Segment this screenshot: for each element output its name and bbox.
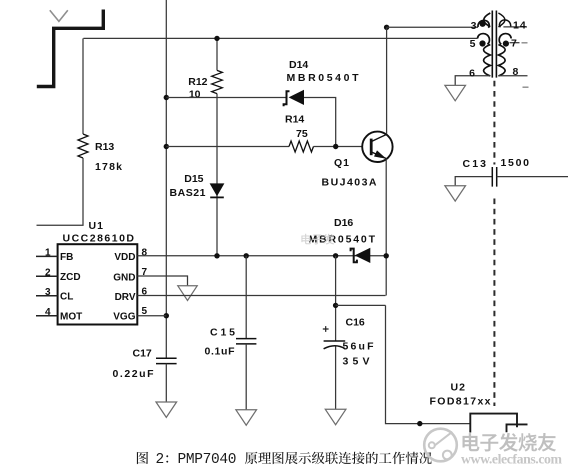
ground transformer pin 6 <box>445 85 466 100</box>
svg-text:14: 14 <box>513 20 527 32</box>
svg-text:GND: GND <box>113 273 135 284</box>
isolation boundary dashed line <box>493 81 495 406</box>
wire Q1 collector up <box>386 27 388 134</box>
node R14 line left junction <box>164 144 169 149</box>
diode D14 MBR0540T (schottky) <box>284 90 304 106</box>
wire R13 bottom lead <box>37 158 84 225</box>
capacitor C16 56uF (polarized) <box>323 326 345 349</box>
svg-text:3: 3 <box>471 20 477 32</box>
transformer right winding lower (pins 7-8) <box>498 34 511 76</box>
wire C16 link to emitter line <box>336 304 386 306</box>
svg-text:PMP7040: PMP7040 <box>178 452 237 468</box>
wire VGG pin 5 stub <box>137 315 166 317</box>
wire C13 left / ground <box>455 177 492 186</box>
svg-text:5: 5 <box>470 38 476 50</box>
phase dot pin 3 <box>480 21 486 27</box>
caption figure text <box>137 452 148 464</box>
capacitor C17 <box>156 358 177 363</box>
svg-text:6: 6 <box>469 68 475 80</box>
svg-text:FB: FB <box>60 252 73 263</box>
capacitor C13 <box>492 167 496 187</box>
svg-text:56uF: 56uF <box>343 341 375 353</box>
svg-text:BUJ403A: BUJ403A <box>322 177 377 189</box>
svg-text:C16: C16 <box>346 317 365 329</box>
capacitor C15 <box>236 339 256 344</box>
ground C16 <box>325 409 346 424</box>
wire C16 bottom <box>335 346 337 409</box>
svg-text:C13: C13 <box>463 158 487 170</box>
wire pin 6 to ground <box>455 76 490 85</box>
wire C15 bottom <box>245 344 247 410</box>
svg-text:VGG: VGG <box>113 312 135 323</box>
resistor R14 <box>289 141 313 152</box>
node rail/R12 junction <box>214 36 219 41</box>
transformer core <box>492 11 496 78</box>
faint watermark centre <box>301 234 334 245</box>
wire pin 7 <box>510 42 520 44</box>
svg-text:U2: U2 <box>451 382 466 394</box>
node D14/R14 junction <box>333 144 338 149</box>
pin 4 MOT stub <box>36 315 58 317</box>
wire pin 8 <box>498 75 527 77</box>
node bottom wire junction <box>417 421 422 426</box>
node C16 top <box>333 253 338 258</box>
node pin3/collector junction <box>384 25 389 30</box>
node C16 mid junction <box>333 303 338 308</box>
svg-text:8: 8 <box>142 248 148 259</box>
svg-text:10: 10 <box>189 89 201 101</box>
svg-text:D15: D15 <box>184 173 203 185</box>
transformer left winding upper (pin 3) <box>478 13 490 28</box>
node emitter/D16 junction <box>384 253 389 258</box>
watermark logo circle <box>424 429 457 462</box>
svg-text:VDD: VDD <box>114 252 135 263</box>
wire C16 top <box>335 256 337 341</box>
ground C15 <box>236 410 257 425</box>
pin 2 ZCD stub <box>36 275 58 277</box>
svg-text:D14: D14 <box>289 59 308 71</box>
wire R14 net / Q1 base <box>166 146 362 148</box>
wire down to opto <box>386 305 471 423</box>
wire D14 net <box>166 98 335 147</box>
wire transformer pin 3 <box>387 26 478 28</box>
wire C17 bottom <box>165 364 167 402</box>
wire VGG vertical from top <box>165 0 167 358</box>
svg-text:BAS21: BAS21 <box>170 187 206 199</box>
pin 1 FB stub <box>36 255 58 257</box>
off-page connector chevron <box>50 10 68 21</box>
svg-text:2: 2 <box>45 268 51 279</box>
svg-text:35V: 35V <box>343 356 370 368</box>
node C15 top <box>244 253 249 258</box>
svg-text:U1: U1 <box>89 220 104 232</box>
ground C17 <box>156 402 177 417</box>
wire C13 right <box>497 176 568 178</box>
svg-text:75: 75 <box>296 128 308 140</box>
svg-text:FOD817xx: FOD817xx <box>430 396 491 408</box>
svg-text:UCC28610D: UCC28610D <box>63 233 135 245</box>
transformer left winding lower (pins 5-6) <box>478 34 491 76</box>
wire top rail to transformer pin 5 <box>83 37 477 39</box>
wire Q1 emitter down to DRV <box>385 159 387 296</box>
transformer right winding upper (pin 14) <box>498 13 510 27</box>
resistor R13 <box>78 134 88 158</box>
svg-text:D16: D16 <box>334 217 353 229</box>
ground GND pin7 <box>178 286 197 301</box>
wire pin 14 <box>503 26 527 28</box>
svg-text:8: 8 <box>513 66 519 78</box>
svg-text:C15: C15 <box>210 327 235 339</box>
wire C15 top <box>245 256 247 339</box>
pin 3 CL stub <box>36 295 58 297</box>
svg-text:0.1uF: 0.1uF <box>205 346 236 358</box>
svg-text:ZCD: ZCD <box>60 272 81 283</box>
diode D15 BAS21 <box>210 183 225 197</box>
wire R12/D15 vertical <box>216 38 218 255</box>
svg-text:1500: 1500 <box>501 157 530 169</box>
svg-text:2: 2 <box>156 452 165 468</box>
net stub minus pin7 <box>522 42 528 44</box>
wire DRV pin 6 <box>137 295 385 297</box>
svg-text:178k: 178k <box>95 161 122 173</box>
node VGG pin 5 <box>164 313 169 318</box>
diode D16 MBR0540T (schottky) <box>351 248 371 263</box>
svg-text:Q1: Q1 <box>334 157 350 169</box>
svg-text:7: 7 <box>511 38 517 50</box>
wire VDD rail pin 8 <box>137 255 386 257</box>
IC U1 UCC28610D box <box>58 244 138 324</box>
svg-text:www.elecfans.com: www.elecfans.com <box>461 452 563 467</box>
transistor Q1 BUJ403A <box>362 132 392 162</box>
watermark brand text <box>463 433 557 452</box>
svg-text:3: 3 <box>45 287 51 298</box>
node D15 bottom <box>214 253 219 258</box>
phase dot pin 5 <box>479 40 485 46</box>
thick input wire <box>37 10 104 87</box>
wire GND pin 7 <box>137 276 187 286</box>
svg-text:R13: R13 <box>95 141 114 153</box>
node D14 line left junction <box>164 95 169 100</box>
svg-text:DRV: DRV <box>115 292 136 303</box>
svg-text:1: 1 <box>45 248 51 259</box>
svg-text:R14: R14 <box>285 114 304 126</box>
svg-text:C17: C17 <box>133 348 152 360</box>
svg-text:CL: CL <box>60 292 73 303</box>
svg-text:4: 4 <box>45 307 51 318</box>
ground C13 <box>445 186 466 201</box>
svg-text:MOT: MOT <box>60 312 82 323</box>
svg-text:MBR0540T: MBR0540T <box>287 72 360 84</box>
net stub minus pin8 <box>523 86 529 88</box>
opto U2 FOD817xx pins <box>470 414 527 433</box>
phase dot pin 7 <box>503 41 509 47</box>
wire R13 top lead <box>82 38 84 134</box>
svg-text:R12: R12 <box>188 76 207 88</box>
resistor R12 <box>212 70 223 93</box>
